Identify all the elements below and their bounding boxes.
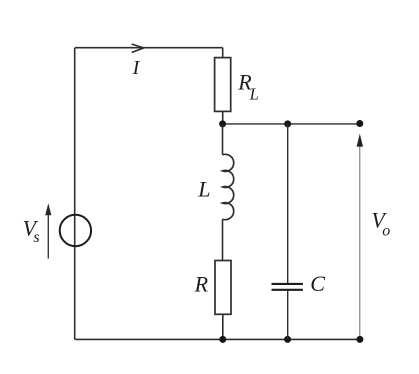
- output arrow Vo head: [357, 134, 363, 147]
- resistor RL (rectangle): [215, 58, 231, 112]
- svg-text:o: o: [382, 222, 390, 239]
- wire node B down to capacitor top plate: [287, 124, 289, 283]
- svg-text:I: I: [132, 57, 141, 79]
- node F junction dot (output bottom): [356, 336, 363, 343]
- node C junction dot (output top): [356, 120, 363, 127]
- wire stub into RL top: [222, 48, 224, 58]
- current arrow I (chevron on top wire): [132, 44, 144, 52]
- source Vs circle: [60, 215, 91, 246]
- Vs polarity arrow line: [47, 214, 49, 259]
- svg-text:C: C: [310, 271, 325, 296]
- wire R bottom to bottom rail: [222, 314, 224, 339]
- svg-text:s: s: [33, 229, 39, 246]
- resistor R (rectangle): [215, 261, 231, 315]
- node A junction dot: [219, 120, 226, 127]
- capacitor C bottom plate: [272, 289, 303, 291]
- label Vo: [371, 208, 390, 240]
- wire top horizontal: [75, 47, 223, 49]
- node E junction dot (capacitor bottom): [284, 336, 291, 343]
- wire horizontal node A to node C (top rail): [223, 123, 360, 125]
- svg-text:R: R: [194, 272, 209, 297]
- wire capacitor bottom plate to bottom rail: [287, 291, 289, 340]
- svg-text:L: L: [249, 84, 259, 103]
- wire node A down to inductor: [222, 124, 224, 155]
- label Vs: [23, 216, 40, 247]
- svg-text:L: L: [197, 176, 210, 201]
- wire inductor bottom to resistor R: [222, 219, 224, 260]
- node B junction dot (capacitor top): [284, 120, 291, 127]
- node D junction dot (R bottom): [219, 336, 226, 343]
- wire RL bottom to node A: [222, 111, 224, 124]
- Vs polarity arrowhead: [45, 203, 51, 215]
- wire left vertical (source branch): [74, 48, 76, 340]
- capacitor C top plate: [272, 283, 303, 285]
- output arrow Vo line: [359, 145, 361, 336]
- label RL: [237, 70, 259, 104]
- inductor L (4 bumps): [223, 154, 234, 219]
- wire bottom rail: [75, 338, 360, 340]
